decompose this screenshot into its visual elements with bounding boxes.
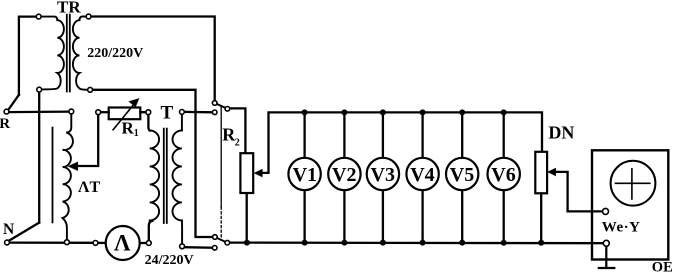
switch contact C (212, 110, 217, 115)
resistor R1 rectangle (109, 108, 141, 120)
switch contact C' (212, 246, 217, 251)
switch contact B' (225, 240, 230, 245)
svg-text:24/220V: 24/220V (145, 253, 194, 268)
terminal R (4, 109, 9, 114)
wire: T secondary top terminal to switch contact C (184, 111, 212, 114)
svg-text:We·Y: We·Y (602, 220, 641, 236)
resistor R2 rectangle (240, 153, 253, 193)
terminal TR primary bottom (37, 87, 42, 92)
svg-text:TR: TR (57, 0, 81, 17)
wire: T secondary bottom terminal to lower switch contact C' (185, 246, 213, 249)
terminal TR secondary top (86, 14, 91, 19)
svg-text:ΛT: ΛT (78, 179, 100, 196)
svg-text:DN: DN (548, 122, 574, 142)
transformer T core (164, 129, 167, 223)
potentiometer DN rectangle (535, 152, 547, 194)
wire: R feeder from TR primary top, left and down (19, 17, 37, 95)
svg-text:R: R (122, 118, 135, 137)
wire: T secondary top to its terminal (181, 114, 183, 130)
svg-text:V2: V2 (332, 164, 356, 186)
transformer TR core (67, 15, 70, 92)
terminal AT bottom (65, 240, 70, 245)
wire: N switch blade (9, 223, 39, 241)
switch contact B (225, 107, 230, 112)
terminal AT top (69, 109, 74, 114)
junction V6 top (501, 109, 507, 115)
switch contact A (212, 101, 217, 106)
svg-text:1: 1 (134, 128, 139, 139)
wire: TR secondary top to switch (91, 17, 215, 101)
svg-text:Λ: Λ (114, 231, 131, 256)
terminal T secondary bottom (180, 244, 185, 249)
voltmeter V5 stubs (461, 112, 463, 242)
wire: R2 bottom to bus (246, 193, 248, 242)
junction V6 bottom (501, 240, 507, 246)
switch blade lower (215, 237, 227, 243)
bottom bus (229, 241, 603, 244)
wire: T secondary bottom to its terminal (181, 220, 183, 243)
terminal R1 left (96, 110, 101, 115)
junction V4 top (420, 109, 426, 115)
mechanical link line (220, 106, 222, 207)
junction DN bottom (538, 240, 544, 246)
svg-text:OE: OE (652, 259, 673, 273)
wire: upper switch to R2 top (230, 108, 246, 152)
voltmeter V4 stubs (421, 112, 423, 242)
voltmeter V1 circle (288, 158, 320, 190)
voltmeter V5 circle (446, 158, 478, 190)
switch contact A' (213, 235, 218, 240)
switch blade upper (215, 103, 228, 109)
CRT screen circle with cross (611, 161, 656, 206)
svg-text:V1: V1 (293, 164, 317, 186)
ammeter circle (106, 226, 140, 260)
junction V1 bottom (302, 240, 308, 246)
terminal circles (4, 14, 609, 250)
wire: bottom-left bus from N to ammeter (9, 241, 93, 243)
terminal R1 right / T primary top (146, 110, 151, 115)
svg-text:V6: V6 (491, 164, 515, 186)
autotransformer AT core (52, 128, 54, 223)
junction V2 bottom (341, 240, 347, 246)
voltmeter V4 circle (406, 158, 438, 190)
oscilloscope input terminal lower (603, 240, 609, 246)
junction V3 top (380, 109, 386, 115)
transformer T secondary winding (172, 130, 181, 220)
voltmeter V3 circle (367, 158, 399, 190)
svg-text:N: N (3, 221, 14, 238)
voltmeter V1 stubs (303, 112, 305, 242)
wiper arrow of AT (77, 115, 98, 166)
oscilloscope input terminal upper (603, 208, 609, 214)
transformer TR secondary winding (73, 17, 88, 90)
wire: ammeter left stub (98, 242, 106, 244)
svg-text:220/220V: 220/220V (87, 46, 143, 61)
wire: R switch blade (8, 95, 19, 110)
voltmeter V6 circle (488, 158, 520, 190)
svg-text:T: T (161, 103, 174, 124)
ground (599, 246, 615, 268)
autotransformer AT winding (63, 114, 73, 240)
DN wiper arrow to oscilloscope input (555, 172, 601, 212)
transformer T primary winding (150, 130, 159, 220)
wire: ammeter right stub (140, 242, 147, 244)
junction V2 top (341, 109, 347, 115)
resistor R1 adjustment arrow (113, 104, 134, 130)
junction V4 bottom (420, 240, 426, 246)
voltmeter V2 stubs (343, 112, 345, 242)
svg-text:R: R (0, 116, 10, 132)
wire: TR secondary bottom to lower switch (92, 90, 212, 237)
wire: R1 left stub (101, 111, 109, 113)
terminal ammeter right / T primary bottom (146, 241, 151, 246)
voltmeter V2 circle (328, 158, 360, 190)
svg-text:V4: V4 (410, 164, 434, 186)
terminal TR primary top (36, 14, 41, 19)
junction V1 top (302, 109, 308, 115)
wire: R1 right to T primary top (140, 112, 150, 130)
terminal TR secondary bottom (88, 87, 93, 92)
terminal T secondary top (180, 110, 185, 115)
voltmeter V3 stubs (382, 112, 384, 242)
svg-text:2: 2 (235, 137, 240, 148)
svg-text:V3: V3 (371, 164, 395, 186)
wire: R to AT top (9, 110, 69, 113)
R2 wiper arrow and riser to top bus (262, 112, 543, 172)
svg-text:V5: V5 (450, 164, 474, 186)
wire: ammeter to transformer T primary bottom (149, 221, 153, 241)
terminal N (5, 240, 10, 245)
junction V5 bottom (459, 240, 465, 246)
junction R2 bottom to bus (244, 240, 250, 246)
voltmeter V6 stubs (503, 112, 505, 242)
DN bottom wire (540, 193, 542, 242)
transformer TR primary winding (41, 17, 64, 90)
oscilloscope OE box (592, 150, 668, 259)
junction V3 bottom (380, 240, 386, 246)
terminal ammeter left (93, 241, 98, 246)
wire: TR primary bottom feeder down to N blade (38, 92, 40, 223)
junction V5 top (459, 109, 465, 115)
